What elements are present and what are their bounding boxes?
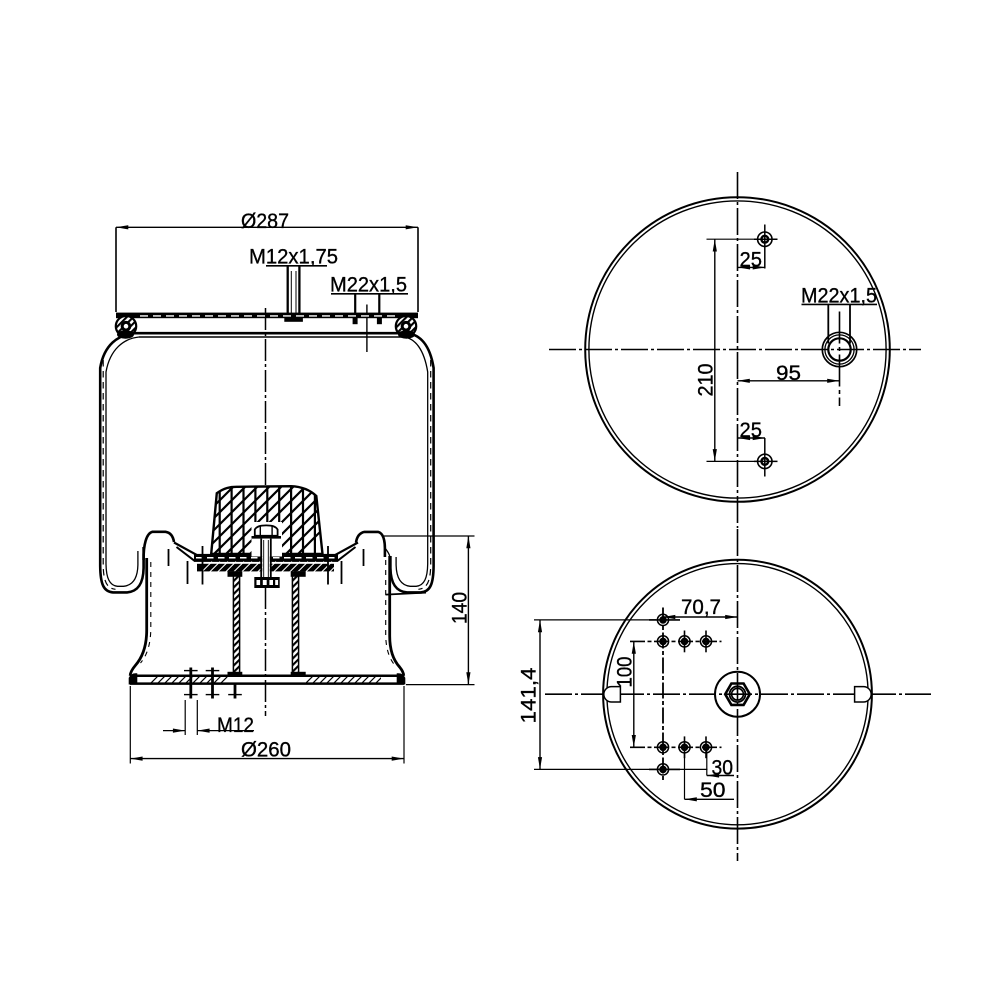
svg-text:Ø260: Ø260 [241,738,291,762]
svg-text:210: 210 [694,363,718,396]
svg-text:Ø287: Ø287 [241,209,289,233]
svg-text:M12x1,75: M12x1,75 [249,245,338,269]
svg-text:M12: M12 [217,713,254,737]
svg-text:M22x1,5: M22x1,5 [330,273,407,297]
svg-text:141,4: 141,4 [516,667,540,723]
svg-text:140: 140 [448,592,472,624]
svg-text:30: 30 [712,756,734,780]
svg-text:70,7: 70,7 [681,595,721,619]
svg-text:50: 50 [700,778,726,802]
svg-text:100: 100 [613,656,637,687]
svg-text:95: 95 [776,361,801,385]
